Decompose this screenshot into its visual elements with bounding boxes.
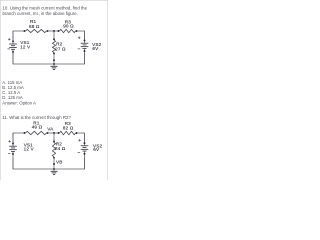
page border right xyxy=(106,0,108,180)
wire (middle branch upper) xyxy=(53,31,55,39)
node VA (top middle junction) xyxy=(53,132,55,134)
node (VS1 - terminal) xyxy=(12,51,14,53)
svg-text:+: + xyxy=(78,36,81,41)
svg-text:−: − xyxy=(8,151,11,156)
wire (R1 to middle node) xyxy=(48,132,59,134)
wire (VS2 top lead) xyxy=(84,31,86,43)
wire (VS2 bottom lead) xyxy=(84,49,86,65)
resistor R3 xyxy=(60,29,76,32)
wire (middle branch lower) xyxy=(53,54,55,65)
ground xyxy=(51,64,58,70)
svg-text:6V: 6V xyxy=(92,46,99,51)
svg-text:−: − xyxy=(78,47,81,52)
page border top xyxy=(0,0,108,2)
node (R2 top terminal) xyxy=(53,38,55,40)
svg-text:+: + xyxy=(8,37,11,42)
svg-text:Answer: Option A: Answer: Option A xyxy=(2,100,36,105)
node (middle branch lower node) xyxy=(53,163,55,165)
node (R2 bottom terminal) xyxy=(53,157,55,159)
battery VS2 xyxy=(81,146,89,151)
wire (top-right segment) xyxy=(77,133,85,142)
battery VS2 xyxy=(81,43,89,48)
svg-text:11. What is the current throug: 11. What is the current through R2? xyxy=(2,115,71,120)
wire (top-right segment) xyxy=(77,31,85,40)
wire (bottom rail) xyxy=(13,158,85,169)
battery VS1 xyxy=(9,146,17,151)
svg-text:12 V: 12 V xyxy=(24,147,35,152)
wire (middle branch upper) xyxy=(53,133,55,142)
node (middle branch lower node) xyxy=(53,59,55,61)
svg-text:VB: VB xyxy=(56,159,63,164)
page border left xyxy=(0,0,2,180)
node (R1 left terminal) xyxy=(24,30,26,32)
svg-text:−: − xyxy=(7,47,10,52)
node (R1 right terminal) xyxy=(47,132,49,134)
wire (top-left segment) xyxy=(13,31,25,41)
wire (VS1 bottom lead) xyxy=(12,49,14,64)
resistor R1 xyxy=(26,29,47,32)
svg-text:6V: 6V xyxy=(93,147,100,152)
svg-text:49 Ω: 49 Ω xyxy=(32,125,43,130)
svg-text:VA: VA xyxy=(47,127,54,132)
wire (VS1 top lead) xyxy=(12,133,14,146)
node (bottom middle junction) xyxy=(53,63,55,65)
node A (top middle junction) xyxy=(53,30,55,32)
node (R3 left terminal) xyxy=(58,132,60,134)
svg-text:10. Using the mesh current met: 10. Using the mesh current method, find … xyxy=(3,5,88,10)
node (R2 bottom terminal) xyxy=(53,53,55,55)
wire (top-left segment) xyxy=(13,133,25,143)
wire (R1 to middle node) xyxy=(48,30,59,32)
svg-text:branch current, IR1, in the ab: branch current, IR1, in the above figure… xyxy=(3,11,78,16)
node (VS1 - terminal) xyxy=(12,153,14,155)
wire (middle branch lower) xyxy=(53,158,55,169)
node (bottom middle junction) xyxy=(53,168,55,170)
svg-text:12 V: 12 V xyxy=(20,44,31,49)
resistor R2 xyxy=(52,40,55,52)
node (VS1 + terminal) xyxy=(12,143,14,145)
resistor R3 xyxy=(60,131,76,134)
resistor R1 xyxy=(26,131,47,134)
svg-text:90 Ω: 90 Ω xyxy=(63,23,74,28)
svg-text:+: + xyxy=(8,139,11,144)
node (R1 left terminal) xyxy=(24,132,26,134)
wire (bottom rail) xyxy=(13,53,85,64)
wire (VS1 top lead) xyxy=(12,31,14,44)
ground xyxy=(51,169,58,175)
node (R3 right terminal) xyxy=(76,30,78,32)
battery VS1 xyxy=(9,44,17,49)
node (VS2 - terminal) xyxy=(84,153,86,155)
wire (VS1 bottom lead) xyxy=(12,151,14,169)
node (R3 left terminal) xyxy=(58,30,60,32)
node (R1 right terminal) xyxy=(47,30,49,32)
svg-text:+: + xyxy=(78,138,81,143)
node (VS2 + terminal) xyxy=(84,40,86,42)
wire (VS2 top lead) xyxy=(84,133,86,146)
svg-text:24 Ω: 24 Ω xyxy=(55,146,66,151)
resistor R2 xyxy=(52,143,55,157)
svg-text:68 Ω: 68 Ω xyxy=(29,24,40,29)
svg-text:−: − xyxy=(78,150,81,155)
node (VS1 + terminal) xyxy=(12,40,14,42)
node (R3 right terminal) xyxy=(76,132,78,134)
wire (VS2 bottom lead) xyxy=(84,151,86,169)
node (R2 top terminal) xyxy=(53,141,55,143)
node (VS2 - terminal) xyxy=(84,50,86,52)
svg-text:82 Ω: 82 Ω xyxy=(63,125,74,130)
svg-text:27 Ω: 27 Ω xyxy=(55,47,66,52)
node (VS2 + terminal) xyxy=(84,142,86,144)
